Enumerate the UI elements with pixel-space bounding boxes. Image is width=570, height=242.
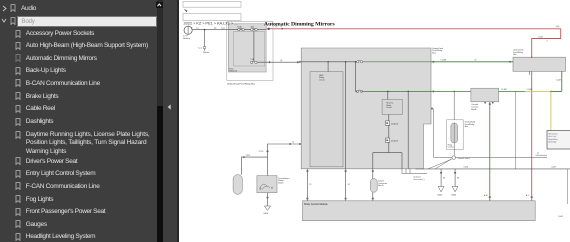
svg-text:25: 25 [309,184,311,186]
svg-text:22: 22 [292,142,294,144]
battery B1 [184,26,192,34]
svg-text:T-up: T-up [221,28,225,30]
under-hood fuse/relay box body [228,24,266,72]
bus wire bottom of relay chain [372,152,401,154]
green wire main row to right box [431,61,513,63]
wire ground stub 2 [454,169,456,187]
wire diode A to diode B [387,125,389,138]
svg-text:C975: C975 [245,155,250,157]
svg-text:A 3: A 3 [525,194,528,197]
wire down to GND relay block [327,62,329,72]
under-dash entry ticks [299,61,300,63]
svg-text:2022 > KZ > PE1 > KA,LX1 > ...: 2022 > KZ > PE1 > KA,LX1 > .... [183,21,238,26]
svg-text:Battery: Battery [183,37,191,40]
GND relay circuit block [310,72,343,167]
svg-text:Box: Box [432,52,435,54]
svg-text:1B: 1B [442,177,445,179]
svg-text:C1-8M: C1-8M [501,89,507,91]
ground bus wire [415,168,570,170]
wire column B ticks [344,170,346,172]
wire fuse F3 to under-dash box [257,61,301,63]
svg-text:C4-M: C4-M [551,167,556,169]
svg-text:Night Mirror: Night Mirror [548,138,558,141]
green wire to right edge [550,90,561,92]
node fuse feed on green row [453,91,455,93]
wire branch to condenser [241,157,267,175]
node row2 tap [354,61,356,63]
svg-text:G401: G401 [437,194,443,196]
junction box pins [484,102,486,104]
node column D [407,91,409,93]
svg-text:Switch: Switch [278,182,284,185]
wire ground stub 1 [440,169,442,187]
svg-text:Box B: Box B [378,185,384,187]
diode B [385,138,389,142]
svg-text:22: 22 [537,153,539,155]
row Audio [2,2,37,15]
fuse F4 [356,61,358,63]
thermal joint bus [434,157,547,159]
toolbar box 2 [183,14,241,21]
wire relay to diode A [387,114,389,121]
splitter arrow [167,104,171,110]
svg-text:Circuit: Circuit [386,106,392,109]
svg-text:Circuit: Circuit [319,79,325,82]
svg-text:C725: C725 [258,151,263,153]
fuse F5 [356,90,358,92]
connector tick on red wire [267,28,269,30]
svg-text:Body Control Module: Body Control Module [304,203,328,206]
svg-text:Diode A: Diode A [390,122,398,125]
condenser [233,175,242,195]
svg-text:G301: G301 [263,213,269,215]
svg-text:Connector (-): Connector (-) [413,178,425,181]
thermal joint 1 [451,156,455,160]
under-hood fuse box (small) [446,120,463,150]
svg-text:C1-8M: C1-8M [526,89,532,91]
svg-text:2B: 2B [456,177,459,179]
svg-text:Assembly: Assembly [548,140,556,143]
svg-text:Thermal Joint 1: Thermal Joint 1 [457,157,470,160]
right relay module box [513,57,566,71]
node to GND relay [327,61,329,63]
fuse F3 [250,61,252,63]
svg-text:Control: Control [447,146,453,149]
green wire box A out [498,90,524,92]
svg-text:G404: G404 [451,194,457,196]
ground G401 [438,187,444,192]
wire down to under-hood fuse [453,91,455,123]
under-hood fuse/relay box outer boundary [226,22,272,81]
svg-text:(+B): (+B) [555,26,559,28]
node column B [344,61,346,63]
legend box [547,131,570,150]
toolbar box 1 [183,2,241,8]
diagram svg placeholder [179,0,570,242]
wire diode B down [387,142,389,152]
svg-text:T-u 2: T-u 2 [197,47,201,49]
svg-text:(1): (1) [280,60,283,62]
svg-text:A 40: A 40 [483,194,487,197]
svg-text:Box: Box [464,126,467,128]
cursor icon [183,9,188,12]
ground G404 [452,187,458,192]
diode A [385,121,389,125]
svg-text:Automatic Dimming Mirrors: Automatic Dimming Mirrors [264,22,335,28]
under-hood inner block [233,32,264,67]
svg-text:Diode B: Diode B [390,141,398,143]
junction box A [470,88,498,102]
wire under-dash left exit to range switch [267,144,301,176]
wire right edge drop [566,169,568,204]
BCM body control module [302,201,535,221]
wire column D down [407,91,409,168]
wire legend stub [535,154,547,156]
svg-text:Auto Day/: Auto Day/ [548,135,556,138]
wire fuse to thermal joint [453,143,455,158]
wire fuse F2 down [252,31,254,62]
wire right box bottom pin [528,71,530,75]
wire column C (swivel) [371,153,373,179]
wire down to row2 [354,62,356,92]
green wire junction box down to BCM [488,102,490,201]
reverse relay circuit block [382,100,402,115]
wire column E [401,153,403,169]
transmission range switch [256,176,276,193]
node reverse relay tap [387,91,389,93]
wire notch exit down to thermal line [431,109,433,158]
row Body (edit box) [1,14,21,27]
wire swivel feed [371,170,373,172]
wire down to reverse relay [386,91,388,99]
wire row2 [355,90,357,92]
node red through right box [530,56,532,58]
wire main row inside under-dash box [301,61,357,63]
fuse F1 100A [237,28,239,30]
svg-text:+: + [191,27,193,30]
wire column A below box [306,169,308,201]
node starter tap [203,29,205,31]
yellow wire [525,91,551,130]
svg-text:C4-M: C4-M [556,79,561,81]
wire to starter [203,30,205,47]
wire battery to fuse box [192,29,228,31]
optional connector bus [402,172,427,174]
svg-text:Under-Hood Fuse/Relay Box: Under-Hood Fuse/Relay Box [227,83,256,86]
swivel connector box B [370,179,377,193]
svg-text:Box: Box [513,54,516,56]
svg-text:C4-M: C4-M [538,36,543,38]
optional connector stubs [402,169,410,174]
svg-text:C1-8M: C1-8M [440,59,446,61]
svg-text:Starter: Starter [203,51,210,54]
wire column B down to BCM [344,62,346,201]
connector T-u 2 [203,47,206,49]
green wire right box down [560,71,562,91]
diagonal wire [428,159,452,169]
svg-text:Holder A: Holder A [229,70,237,73]
green wire row2 exit [431,90,471,92]
ground G301 [264,206,270,210]
connector C725 [266,151,268,153]
svg-text:C4-M: C4-M [463,167,468,169]
wire swivel to BCM [371,192,373,201]
svg-text:Box-A: Box-A [471,108,477,111]
svg-text:(+): (+) [196,27,199,29]
wire switch to ground [266,193,268,206]
svg-text:C4-M: C4-M [558,216,563,218]
svg-text:(2): (2) [214,27,217,29]
svg-text:4: 4 [546,41,547,43]
svg-text:22: 22 [474,59,476,61]
wire through fuse row [228,29,266,31]
red feed wire (+B) [266,28,561,30]
svg-text:14: 14 [347,184,349,186]
gray wire column [514,91,516,168]
fuse F2 40A [250,28,252,30]
under-dash fuse/relay box [301,48,431,169]
